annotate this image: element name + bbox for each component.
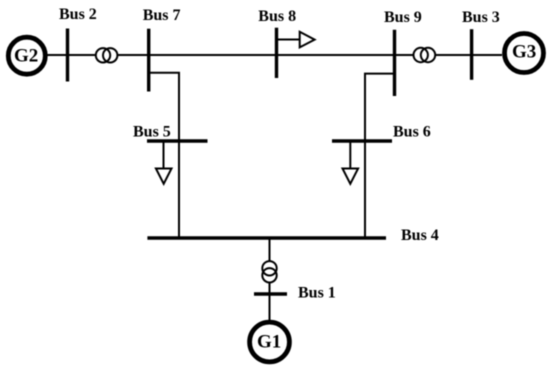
generator G3 — [505, 34, 544, 73]
svg-text:Bus 8: Bus 8 — [258, 8, 296, 25]
load arrow at Bus 6 — [343, 141, 359, 184]
svg-text:G3: G3 — [512, 42, 536, 63]
svg-text:Bus 4: Bus 4 — [401, 227, 439, 244]
bus bar Bus 2 — [66, 29, 69, 82]
transformer between Bus9 and Bus3 — [414, 48, 436, 62]
bus bar Bus 6 — [332, 139, 392, 142]
generator G2 — [8, 37, 45, 74]
svg-text:Bus 6: Bus 6 — [393, 124, 431, 141]
bus bar Bus 5 — [147, 139, 208, 142]
wire: transformer to Bus7/Bus8/Bus9 to transformer — [117, 54, 413, 56]
bus bar Bus 9 — [393, 30, 396, 96]
generator G1 — [250, 322, 290, 362]
svg-text:Bus 9: Bus 9 — [384, 9, 422, 26]
load arrow at Bus 5 — [156, 141, 172, 184]
bus bar Bus 7 — [147, 29, 150, 92]
wire: Bus9 branch down to Bus6/Bus4 — [365, 74, 395, 238]
wire: Bus4 down to transformer — [269, 238, 271, 261]
svg-text:Bus 7: Bus 7 — [143, 7, 181, 24]
arrow at Bus 8 pointing right — [277, 32, 315, 48]
svg-text:G1: G1 — [257, 332, 281, 353]
bus bar Bus 3 — [470, 29, 473, 80]
svg-text:Bus 3: Bus 3 — [462, 9, 500, 26]
bus bar Bus 4 — [147, 236, 386, 239]
svg-text:Bus 2: Bus 2 — [59, 6, 97, 23]
wire: G2 to transformer — [47, 54, 96, 56]
bus bar Bus 8 — [275, 28, 278, 78]
wire: Bus7 branch down to Bus5/Bus4 — [149, 73, 179, 238]
wire: transformer to Bus3/G3 — [435, 54, 502, 56]
transformer between Bus4 and Bus1 — [262, 261, 276, 282]
svg-text:Bus 5: Bus 5 — [133, 124, 171, 141]
wire: transformer down to Bus1 and G1 — [269, 282, 271, 321]
svg-text:G2: G2 — [14, 46, 38, 67]
transformer between Bus2 and Bus7 — [96, 48, 118, 62]
bus bar Bus 1 — [254, 292, 287, 295]
svg-text:Bus 1: Bus 1 — [298, 285, 336, 302]
